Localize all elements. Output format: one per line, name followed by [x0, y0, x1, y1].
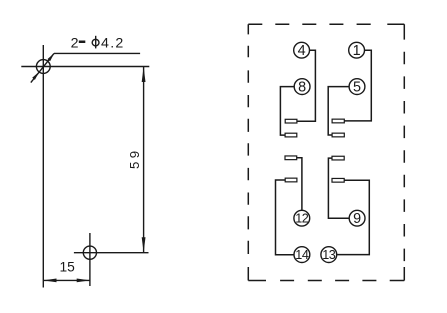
- svg-text:4.2: 4.2: [101, 35, 125, 51]
- svg-text:13: 13: [322, 248, 336, 262]
- wire movable contact to pin 14: [276, 180, 295, 255]
- relay case outline, top edge dashes: [248, 23, 404, 25]
- dimension 59 arrow down: [142, 237, 146, 253]
- wire fixed contact to pin 9: [328, 158, 349, 218]
- pin 9: [349, 210, 365, 227]
- svg-text:14: 14: [295, 248, 309, 262]
- movable contact plate pole 1: [285, 133, 297, 137]
- dimension 15 arrow left: [43, 279, 56, 283]
- fixed contact plate pole 3: [285, 156, 297, 160]
- leader diagonal line through hole H1: [31, 53, 54, 82]
- svg-text:12: 12: [295, 212, 309, 226]
- pin 4: [294, 42, 310, 59]
- svg-text:1: 1: [353, 43, 361, 59]
- svg-text:5: 5: [353, 80, 361, 96]
- pin 13: [321, 247, 337, 263]
- hole H2 vertical center line: [89, 233, 91, 286]
- wire fixed contact to pin 12: [297, 158, 302, 211]
- svg-text:8: 8: [298, 80, 306, 96]
- movable contact plate pole 4: [332, 178, 344, 182]
- dimension 15 arrow right: [77, 279, 90, 283]
- movable contact plate pole 3: [285, 178, 297, 182]
- fixed contact plate pole 2: [332, 119, 344, 123]
- wire pin 8 to movable contact: [280, 87, 294, 136]
- leader arrowhead at hole H1 edge: [32, 72, 39, 80]
- pin 8: [294, 79, 310, 96]
- hole H1 horizontal center line: [21, 66, 149, 68]
- hole H2: [83, 246, 96, 259]
- dimension 15 line: [43, 279, 90, 281]
- fixed contact plate pole 1: [285, 119, 297, 123]
- svg-text:59: 59: [127, 148, 142, 169]
- wire pin 4 to fixed contact: [297, 50, 316, 121]
- hole H2 horizontal center line: [74, 252, 149, 254]
- movable contact plate pole 2: [332, 133, 344, 137]
- hole H1 vertical center line: [42, 45, 44, 288]
- leader arrowhead at shoulder: [47, 53, 54, 61]
- pin 14: [294, 247, 310, 263]
- wire movable contact to pin 13: [337, 180, 370, 254]
- dimension 59 arrow up: [142, 67, 146, 83]
- fixed contact plate pole 4: [332, 156, 344, 160]
- relay case outline, bottom edge dashes: [248, 280, 404, 282]
- relay case outline, right edge dashes: [403, 24, 405, 280]
- dimension 59 line: [143, 67, 145, 253]
- wire pin 1 to fixed contact: [344, 50, 371, 121]
- svg-text:4: 4: [298, 43, 306, 59]
- wire pin 5 to movable contact: [328, 87, 349, 135]
- pin 12: [294, 210, 310, 226]
- svg-text:2: 2: [71, 35, 79, 51]
- leader shoulder line for 2-φ4.2: [54, 52, 140, 54]
- hole H1: [36, 60, 50, 74]
- pin 5: [349, 79, 365, 96]
- pin 1: [349, 42, 365, 59]
- svg-text:15: 15: [60, 259, 76, 274]
- relay case outline, left edge dashes: [247, 24, 249, 280]
- svg-text:9: 9: [353, 211, 361, 227]
